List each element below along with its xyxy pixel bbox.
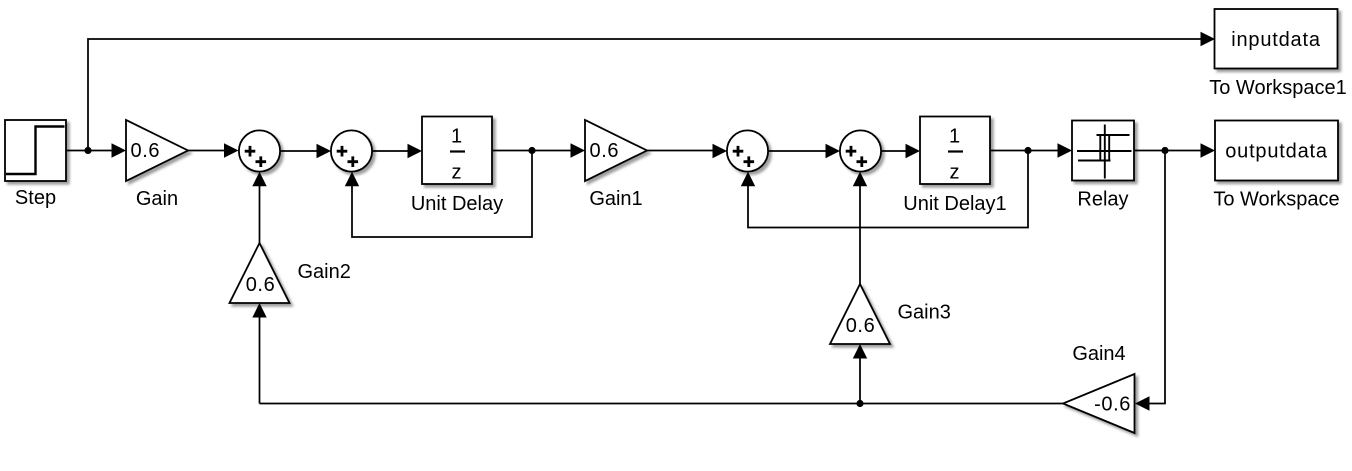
block Relay bbox=[1072, 121, 1134, 181]
wire Gain3 output into Sum4 bottom bbox=[859, 185, 861, 284]
wire bottom rail into Gain3 input bbox=[859, 358, 861, 404]
wire Sum4 to Unit Delay1 bbox=[881, 150, 906, 152]
svg-text:z: z bbox=[452, 162, 462, 184]
svg-text:outputdata: outputdata bbox=[1225, 141, 1328, 163]
junction node after Step bbox=[84, 147, 91, 154]
wire bottom rail into Gain2 input bbox=[259, 317, 261, 404]
wire Sum3 to Sum4 bbox=[768, 150, 826, 152]
sum block Sum4 bbox=[840, 130, 881, 171]
wire junction up and right to To Workspace1 bbox=[88, 39, 1202, 151]
block Unit Delay (1/z) bbox=[422, 117, 492, 185]
svg-text:0.6: 0.6 bbox=[131, 140, 161, 162]
svg-text:Unit Delay1: Unit Delay1 bbox=[903, 193, 1006, 215]
junction node after Relay bbox=[1161, 147, 1168, 154]
gain block Gain (0.6) bbox=[126, 120, 188, 181]
sink block To Workspace1 (inputdata) bbox=[1215, 9, 1338, 69]
gain block Gain1 (0.6) bbox=[585, 120, 647, 181]
svg-text:Gain3: Gain3 bbox=[898, 302, 951, 324]
wire Unit Delay1 output to Relay bbox=[990, 150, 1059, 152]
svg-text:0.6: 0.6 bbox=[846, 315, 876, 337]
wire feedback Unit Delay1 to Sum3 bottom bbox=[748, 151, 1028, 228]
svg-text:Step: Step bbox=[15, 187, 56, 209]
svg-text:To Workspace1: To Workspace1 bbox=[1209, 77, 1346, 99]
wire Step output to Gain bbox=[66, 150, 113, 152]
sink block To Workspace (outputdata) bbox=[1215, 121, 1338, 181]
svg-text:Gain4: Gain4 bbox=[1072, 343, 1125, 365]
wire junction down to Gain4 input bbox=[1150, 151, 1166, 404]
junction node after Unit Delay1 bbox=[1024, 147, 1031, 154]
svg-text:Gain2: Gain2 bbox=[298, 261, 351, 283]
source block Step bbox=[5, 120, 66, 181]
gain block Gain3 (0.6, pointing up) bbox=[830, 284, 890, 344]
svg-text:To Workspace: To Workspace bbox=[1213, 189, 1339, 211]
svg-text:1: 1 bbox=[949, 126, 960, 148]
svg-text:Unit Delay: Unit Delay bbox=[411, 193, 503, 215]
svg-text:-0.6: -0.6 bbox=[1094, 394, 1131, 416]
wire Gain2 output into Sum1 bottom bbox=[259, 185, 261, 243]
sum block Sum3 bbox=[727, 130, 768, 171]
wire Sum1 to Sum2 bbox=[280, 150, 317, 152]
wire Relay to To Workspace bbox=[1134, 150, 1202, 152]
svg-text:0.6: 0.6 bbox=[590, 140, 620, 162]
gain block Gain2 (0.6, pointing up) bbox=[230, 243, 290, 303]
svg-text:Relay: Relay bbox=[1077, 189, 1128, 211]
wire feedback Unit Delay to Sum2 bottom bbox=[352, 151, 532, 238]
wire Sum2 to Unit Delay bbox=[372, 150, 408, 152]
svg-text:0.6: 0.6 bbox=[246, 274, 276, 296]
gain block Gain4 (-0.6, pointing left) bbox=[1063, 374, 1135, 433]
sum block Sum1 bbox=[239, 130, 280, 171]
wire bottom rail from Gain4 output to Gain2 bbox=[260, 403, 1064, 405]
wire Unit Delay output to Gain1 bbox=[492, 150, 572, 152]
svg-text:1: 1 bbox=[451, 126, 462, 148]
svg-text:Gain1: Gain1 bbox=[589, 188, 642, 210]
svg-text:z: z bbox=[950, 162, 960, 184]
junction node after Unit Delay bbox=[528, 147, 535, 154]
svg-text:inputdata: inputdata bbox=[1231, 29, 1321, 51]
block Unit Delay1 (1/z) bbox=[920, 117, 990, 185]
wire Gain1 to Sum3 bbox=[647, 150, 714, 152]
junction node on bottom rail below Gain3 bbox=[856, 400, 863, 407]
wire Gain to Sum1 bbox=[188, 150, 225, 152]
sum block Sum2 bbox=[331, 130, 372, 171]
svg-text:Gain: Gain bbox=[136, 188, 178, 210]
